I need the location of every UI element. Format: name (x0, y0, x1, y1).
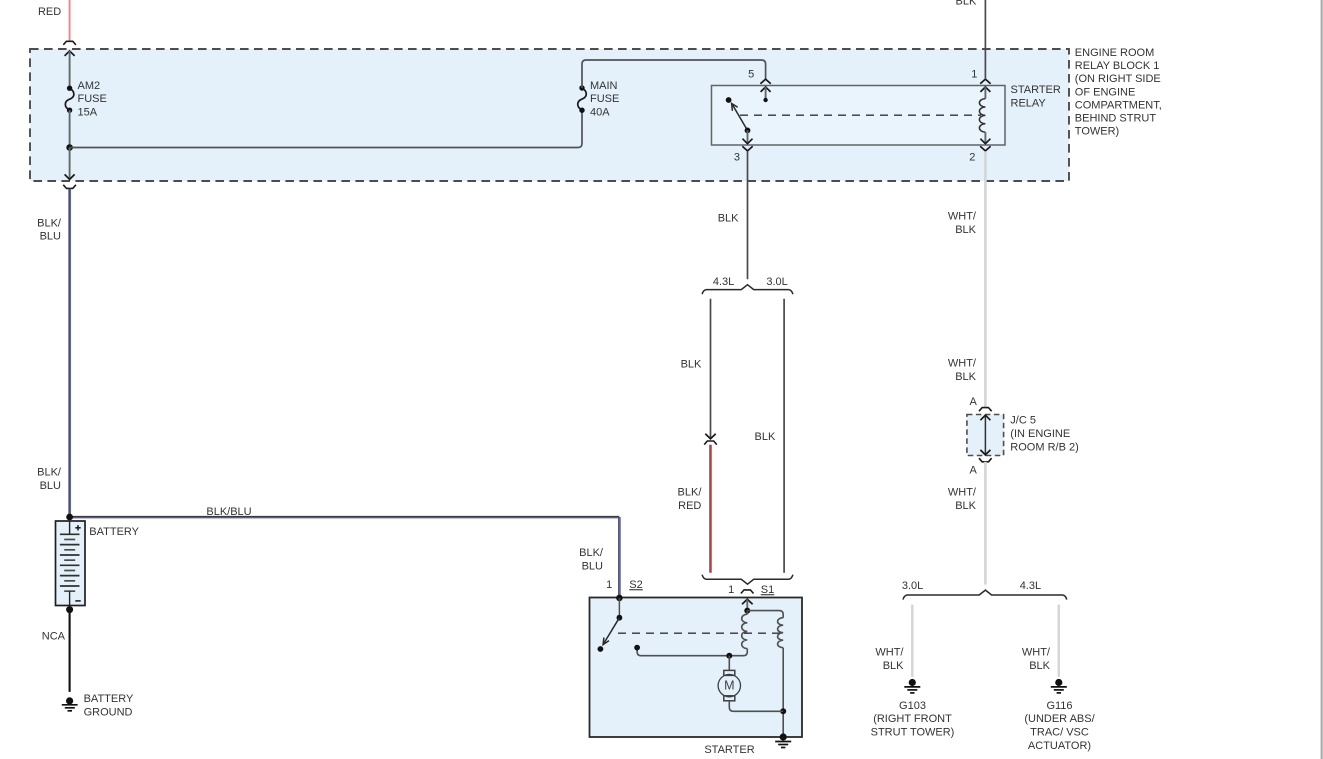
svg-text:NCA: NCA (42, 631, 66, 643)
svg-text:BLK: BLK (955, 500, 976, 512)
svg-text:WHT/: WHT/ (948, 211, 977, 223)
svg-text:WHT/: WHT/ (948, 357, 977, 369)
svg-text:RELAY: RELAY (1011, 98, 1047, 110)
svg-text:A: A (969, 396, 977, 408)
svg-text:M: M (724, 679, 734, 693)
svg-text:(RIGHT FRONT: (RIGHT FRONT (873, 713, 952, 725)
svg-text:BLK: BLK (956, 0, 977, 8)
svg-text:G103: G103 (899, 700, 926, 712)
svg-text:BLK/: BLK/ (678, 487, 703, 499)
svg-text:MAIN: MAIN (590, 80, 618, 92)
svg-text:A: A (969, 464, 977, 476)
svg-text:3: 3 (734, 151, 740, 163)
svg-text:RED: RED (38, 6, 61, 18)
svg-text:BLK: BLK (1029, 660, 1050, 672)
svg-text:4.3L: 4.3L (1020, 580, 1041, 592)
svg-text:G116: G116 (1046, 700, 1072, 712)
svg-text:(UNDER ABS/: (UNDER ABS/ (1024, 713, 1095, 725)
svg-text:BLU: BLU (582, 561, 603, 573)
svg-text:S1: S1 (761, 584, 774, 596)
svg-text:BLU: BLU (40, 480, 61, 492)
svg-text:FUSE: FUSE (590, 93, 619, 105)
svg-text:BATTERY: BATTERY (84, 693, 134, 705)
svg-text:ROOM R/B 2): ROOM R/B 2) (1010, 442, 1078, 454)
svg-text:40A: 40A (590, 106, 610, 118)
svg-text:TRAC/ VSC: TRAC/ VSC (1030, 727, 1089, 739)
svg-text:(IN ENGINE: (IN ENGINE (1010, 428, 1070, 440)
svg-text:3.0L: 3.0L (902, 580, 923, 592)
svg-text:FUSE: FUSE (78, 93, 107, 105)
svg-text:BLU: BLU (40, 231, 61, 243)
svg-text:BLK: BLK (883, 660, 904, 672)
svg-text:STARTER: STARTER (704, 744, 754, 756)
svg-text:4.3L: 4.3L (713, 276, 734, 288)
svg-text:COMPARTMENT,: COMPARTMENT, (1075, 99, 1162, 111)
svg-text:RELAY BLOCK 1: RELAY BLOCK 1 (1075, 60, 1160, 72)
svg-text:BLK: BLK (755, 431, 776, 443)
svg-text:BLK: BLK (955, 224, 976, 236)
svg-text:AM2: AM2 (78, 80, 101, 92)
svg-text:15A: 15A (78, 106, 98, 118)
svg-text:BEHIND STRUT: BEHIND STRUT (1075, 113, 1157, 125)
svg-text:1: 1 (606, 579, 612, 591)
svg-text:BLK/BLU: BLK/BLU (206, 506, 251, 518)
svg-text:RED: RED (678, 500, 701, 512)
svg-text:TOWER): TOWER) (1075, 126, 1119, 138)
svg-text:GROUND: GROUND (84, 707, 133, 719)
svg-text:WHT/: WHT/ (948, 486, 977, 498)
svg-text:BLK: BLK (955, 371, 976, 383)
svg-text:3.0L: 3.0L (766, 276, 787, 288)
svg-text:1: 1 (971, 69, 977, 81)
svg-text:OF ENGINE: OF ENGINE (1075, 86, 1136, 98)
svg-text:J/C 5: J/C 5 (1010, 415, 1036, 427)
svg-text:WHT/: WHT/ (1022, 647, 1051, 659)
svg-text:1: 1 (728, 584, 734, 596)
svg-text:STARTER: STARTER (1011, 84, 1061, 96)
svg-text:WHT/: WHT/ (875, 647, 904, 659)
svg-text:S2: S2 (629, 579, 642, 591)
svg-text:BLK/: BLK/ (37, 466, 62, 478)
svg-text:STRUT TOWER): STRUT TOWER) (871, 727, 955, 739)
svg-text:ENGINE ROOM: ENGINE ROOM (1075, 47, 1154, 59)
svg-text:BLK: BLK (681, 359, 702, 371)
svg-text:BLK: BLK (718, 212, 739, 224)
svg-text:BLK/: BLK/ (37, 217, 62, 229)
svg-text:(ON RIGHT SIDE: (ON RIGHT SIDE (1075, 73, 1161, 85)
svg-text:5: 5 (748, 69, 754, 81)
svg-text:BLK/: BLK/ (579, 547, 604, 559)
svg-text:2: 2 (969, 151, 975, 163)
svg-text:BATTERY: BATTERY (89, 526, 139, 538)
svg-text:ACTUATOR): ACTUATOR) (1028, 740, 1091, 752)
